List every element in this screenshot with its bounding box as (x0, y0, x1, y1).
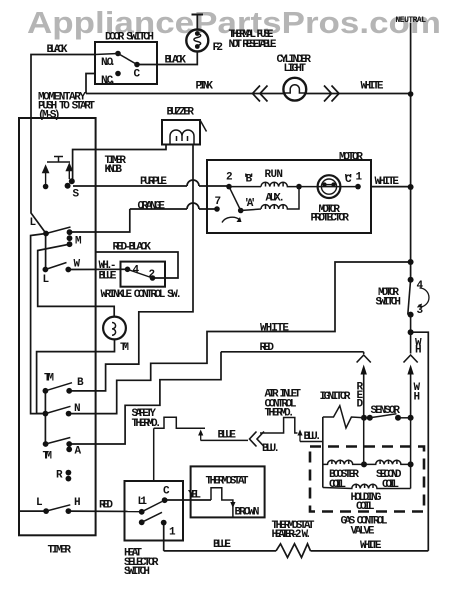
wire M diag to lamp top (38, 244, 115, 316)
svg-text:1: 1 (169, 527, 176, 539)
contact L-M blade (46, 227, 71, 234)
wrinkle control box (121, 262, 166, 287)
svg-text:BLUE: BLUE (99, 271, 117, 283)
svg-text:TM: TM (44, 373, 54, 385)
svg-text:BUZZER: BUZZER (167, 107, 195, 119)
svg-text:W: W (74, 259, 81, 271)
svg-text:TIMER: TIMER (48, 545, 72, 557)
svg-text:F2: F2 (213, 42, 224, 54)
booster coil (323, 460, 364, 465)
thermostat box (191, 466, 265, 517)
wire white staircase to N (69, 262, 411, 414)
heat selector contacts (139, 497, 168, 525)
svg-text:LIGHT: LIGHT (284, 63, 307, 75)
wire neutral vertical (410, 23, 412, 280)
contact B row (43, 388, 49, 394)
svg-text:L: L (36, 497, 43, 509)
air inlet thermo bump (260, 418, 298, 434)
svg-text:'B': 'B' (243, 174, 256, 186)
wire pink/white run (86, 93, 411, 95)
neutral junction node (408, 91, 414, 97)
svg-text:PROTECTOR: PROTECTOR (311, 213, 350, 225)
svg-text:C: C (134, 69, 141, 81)
blue wire left + chevrons (201, 439, 249, 441)
contact A row (43, 441, 49, 447)
svg-text:N.O.: N.O. (101, 57, 116, 69)
svg-text:H: H (74, 497, 81, 509)
svg-text:4: 4 (133, 265, 140, 277)
wire black feed top (31, 55, 95, 234)
second coil (364, 460, 411, 465)
svg-text:L: L (43, 274, 50, 286)
svg-text:HEATER-2 W.: HEATER-2 W. (272, 529, 312, 541)
wire bottom white/blue (164, 550, 276, 552)
wire orange run (130, 203, 217, 209)
node white junction mid (408, 259, 414, 265)
wire C to F2 (137, 52, 197, 65)
door switch box (95, 42, 157, 84)
contact H row (43, 508, 49, 514)
svg-text:ORANGE: ORANGE (138, 201, 166, 213)
svg-text:S: S (73, 189, 80, 201)
wire heat sel 1 down (163, 523, 165, 551)
wire purple run (73, 180, 229, 186)
svg-text:BLU.: BLU. (262, 443, 280, 455)
svg-text:'C': 'C' (343, 174, 355, 186)
svg-text:PINK: PINK (196, 81, 214, 93)
svg-text:NEUTRAL: NEUTRAL (396, 16, 427, 25)
contact M dots (67, 229, 73, 247)
svg-text:PURPLE: PURPLE (140, 176, 167, 188)
svg-text:THERMOSTAT: THERMOSTAT (206, 476, 249, 488)
svg-text:RUN: RUN (265, 169, 284, 181)
wire NC to pink (86, 74, 95, 94)
wire yel (165, 499, 211, 501)
svg-text:IGNITOR: IGNITOR (320, 391, 351, 403)
svg-text:N: N (74, 403, 81, 415)
wire L feed down-left column (31, 234, 46, 414)
node motor white junction (408, 184, 414, 190)
resistor thermostat heater (276, 544, 311, 558)
wire buzzer main vertical (69, 145, 193, 391)
svg-text:D: D (357, 399, 364, 411)
wire red-black (96, 252, 179, 278)
svg-text:BLACK: BLACK (47, 44, 68, 56)
momentary arrows (43, 164, 72, 184)
buzzer box (162, 120, 200, 145)
motor box (207, 160, 371, 233)
terminal R dots (66, 470, 72, 476)
wire M to orange riser (70, 209, 130, 232)
svg-text:BLACK: BLACK (165, 55, 187, 67)
svg-text:A: A (75, 446, 82, 458)
door switch S1 contacts (115, 51, 140, 77)
svg-text:WHITE: WHITE (360, 540, 382, 552)
svg-text:BLUE: BLUE (213, 539, 231, 551)
svg-text:'A': 'A' (244, 198, 257, 210)
red/wh verticals into valve (363, 418, 365, 465)
RED connector break (357, 352, 371, 418)
blue arrow left (200, 435, 202, 441)
svg-text:R: R (56, 470, 63, 482)
svg-text:RED: RED (99, 500, 113, 512)
wire S up to buzzer (73, 145, 166, 182)
svg-text:DOOR SWITCH: DOOR SWITCH (105, 32, 154, 44)
contact N row (43, 411, 49, 417)
svg-text:TM: TM (120, 342, 129, 354)
svg-text:KNOB: KNOB (105, 164, 123, 176)
ignitor left column (322, 417, 324, 488)
buzzer coil (170, 130, 194, 144)
svg-text:WHITE: WHITE (260, 323, 289, 335)
heat selector box (125, 481, 184, 541)
wire red H to heat selector (68, 510, 141, 512)
wire white from motor (371, 186, 411, 188)
svg-text:SENSOR: SENSOR (371, 405, 401, 417)
blu arrow right (299, 434, 301, 442)
run winding (229, 182, 299, 187)
valve junction dots (361, 461, 367, 467)
svg-text:(M-S): (M-S) (38, 110, 61, 122)
svg-text:C: C (163, 486, 170, 498)
svg-text:NOT RESETABLE: NOT RESETABLE (229, 39, 277, 51)
svg-text:COIL: COIL (356, 501, 375, 513)
aux winding (241, 187, 299, 211)
motor internals (214, 184, 361, 214)
contact W row (43, 267, 49, 273)
motor blade arc arrow (222, 217, 240, 222)
wire red horizontal (221, 351, 364, 353)
svg-text:THERMO.: THERMO. (265, 408, 295, 420)
svg-text:COIL: COIL (329, 479, 346, 491)
svg-text:BLUE: BLUE (218, 430, 237, 442)
holding coil (323, 484, 411, 489)
svg-text:3: 3 (417, 305, 424, 317)
svg-text:BROWN: BROWN (235, 507, 260, 519)
thermostat step (211, 488, 233, 518)
wrinkle sw contacts (125, 267, 131, 273)
safety thermo bump (154, 417, 205, 428)
timer box (19, 118, 96, 535)
lamp TM (103, 317, 126, 340)
svg-text:WHITE: WHITE (361, 81, 384, 93)
motor 2-A blade (229, 187, 241, 211)
svg-text:RED-BLACK: RED-BLACK (113, 242, 152, 254)
wire H to box edge (19, 510, 46, 512)
svg-text:MOTOR: MOTOR (339, 152, 363, 164)
wire lamp bottom to N (37, 340, 115, 414)
thermal fuse F2 (186, 30, 208, 52)
motor protector (318, 175, 341, 198)
svg-text:N.C.: N.C. (101, 75, 116, 87)
svg-text:AUX.: AUX. (266, 193, 286, 205)
wire red staircase to A (69, 352, 221, 444)
ignitor (323, 406, 364, 428)
gas control valve dashed box (310, 447, 424, 512)
motor switch (408, 277, 414, 283)
contact S dots (43, 178, 75, 189)
svg-text:YEL: YEL (188, 490, 201, 502)
sensor row (361, 415, 414, 421)
svg-text:SWITCH: SWITCH (124, 566, 150, 578)
svg-text:SWITCH: SWITCH (376, 297, 402, 309)
svg-text:WHITE: WHITE (375, 176, 400, 188)
svg-text:L1: L1 (138, 496, 148, 508)
WH connector break (404, 332, 418, 418)
wire W to wrinkle sw (68, 268, 127, 270)
svg-text:B: B (77, 377, 84, 389)
svg-text:BLU.: BLU. (304, 431, 322, 443)
momentary T symbol (47, 157, 70, 163)
svg-text:7: 7 (215, 196, 222, 208)
svg-text:H: H (415, 345, 422, 357)
cylinder light lamp (283, 78, 306, 101)
wire F2 top stub (196, 15, 198, 30)
wire white bypass right (411, 332, 429, 551)
svg-text:RED: RED (260, 342, 275, 354)
connector chevrons pink wire (253, 86, 340, 102)
svg-text:TM: TM (43, 451, 53, 463)
wire L column to W contact (45, 234, 47, 270)
svg-text:1: 1 (356, 172, 363, 184)
svg-text:2: 2 (149, 269, 156, 281)
svg-text:M: M (75, 236, 82, 248)
svg-text:4: 4 (417, 280, 424, 292)
svg-text:L: L (30, 217, 37, 229)
svg-text:2: 2 (226, 172, 233, 184)
svg-text:COIL: COIL (382, 479, 399, 491)
svg-text:VALVE: VALVE (351, 526, 375, 538)
svg-text:THERMO.: THERMO. (132, 418, 162, 430)
svg-text:H: H (414, 392, 421, 404)
svg-text:WRINKLE CONTROL SW.: WRINKLE CONTROL SW. (101, 289, 183, 301)
wire left column B-N-A (44, 391, 46, 444)
